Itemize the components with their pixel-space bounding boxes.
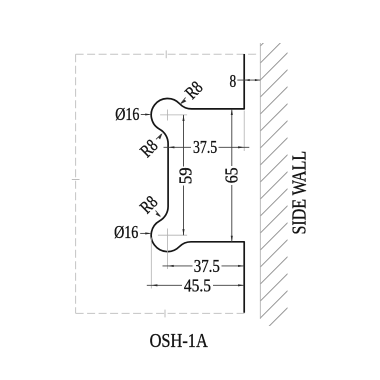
dimension 37.5 top line xyxy=(164,146,250,148)
leader diameter 16 bottom xyxy=(140,232,149,234)
part profile outline xyxy=(151,54,244,313)
extension line left for 45.5 xyxy=(150,238,152,289)
leader arrow diameter 16 bottom xyxy=(145,232,151,234)
leader R8 middle xyxy=(156,134,162,139)
dimension 37.5 top arrows xyxy=(168,146,244,148)
wall hatching xyxy=(260,16,290,335)
frame border top dashed xyxy=(76,53,257,55)
centerline tick on left frame xyxy=(72,179,80,181)
svg-text:R8: R8 xyxy=(182,78,207,103)
svg-text:8: 8 xyxy=(229,72,236,91)
centerline tick on top frame xyxy=(165,50,167,58)
svg-text:37.5: 37.5 xyxy=(193,139,217,158)
extension line right edge for top 37.5 xyxy=(243,111,245,152)
leader arrow R8 bottom xyxy=(156,213,161,218)
centerline tick on bottom frame xyxy=(164,310,166,318)
dimension 37.5 bottom arrows xyxy=(168,265,245,267)
dimension 45.5 arrows xyxy=(151,284,244,286)
top knob center cross xyxy=(160,110,187,121)
svg-text:Ø16: Ø16 xyxy=(114,223,138,242)
side wall face line xyxy=(259,43,261,319)
dimension 59 arrows xyxy=(182,115,184,235)
svg-text:R8: R8 xyxy=(137,136,162,161)
leader R8 top xyxy=(181,98,186,104)
dimension 8 line xyxy=(237,79,260,81)
svg-text:45.5: 45.5 xyxy=(184,275,211,295)
svg-text:Ø16: Ø16 xyxy=(115,105,139,124)
svg-text:OSH-1A: OSH-1A xyxy=(150,329,209,352)
leader R8 bottom xyxy=(156,211,161,217)
leader arrow R8 middle xyxy=(158,133,162,139)
svg-text:65: 65 xyxy=(222,167,242,183)
leader arrow R8 top xyxy=(180,100,186,105)
bottom knob center cross xyxy=(158,229,187,270)
leader arrow diameter 16 top xyxy=(145,113,151,115)
dimension 65 arrows xyxy=(231,109,233,242)
dimension 59 line xyxy=(183,115,185,235)
dimension 37.5 bottom line xyxy=(163,265,245,267)
svg-text:SIDE WALL: SIDE WALL xyxy=(288,151,310,235)
dimension 8 arrows xyxy=(245,79,261,81)
dimension 65 line xyxy=(231,109,233,242)
svg-text:37.5: 37.5 xyxy=(194,256,220,277)
svg-text:59: 59 xyxy=(176,167,196,184)
frame border left dashed xyxy=(75,54,77,313)
dimension 45.5 line xyxy=(147,284,244,286)
leader diameter 16 top xyxy=(141,114,150,116)
frame border bottom dashed xyxy=(76,312,245,314)
